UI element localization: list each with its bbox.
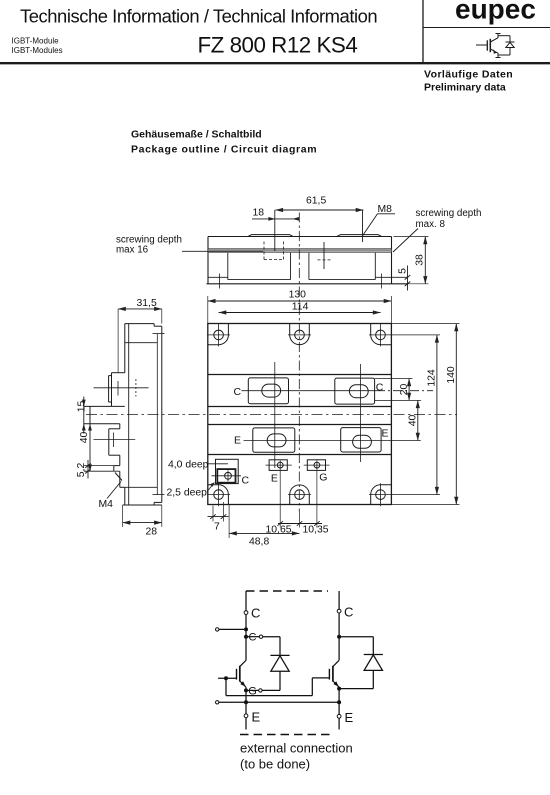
svg-text:61,5: 61,5 (306, 196, 326, 207)
svg-text:140: 140 (446, 366, 457, 384)
svg-text:IGBT-Module: IGBT-Module (12, 37, 60, 46)
svg-text:10,35: 10,35 (303, 525, 329, 536)
svg-text:7: 7 (214, 522, 220, 533)
svg-text:M4: M4 (99, 499, 114, 510)
svg-text:130: 130 (289, 290, 307, 301)
svg-text:38: 38 (414, 254, 425, 266)
svg-text:C: C (242, 475, 250, 487)
svg-text:E: E (234, 435, 241, 447)
svg-text:C: C (234, 386, 242, 398)
svg-text:Technische Information / Techn: Technische Information / Technical Infor… (20, 6, 377, 27)
svg-text:Vorläufige Daten: Vorläufige Daten (424, 69, 513, 81)
svg-text:C: C (344, 605, 353, 620)
svg-text:4,0 deep: 4,0 deep (168, 460, 209, 471)
svg-text:Package outline / Circuit diag: Package outline / Circuit diagram (131, 144, 317, 156)
svg-text:18: 18 (253, 208, 265, 219)
svg-text:IGBT-Modules: IGBT-Modules (12, 46, 63, 55)
svg-text:screwing depth: screwing depth (416, 208, 482, 219)
svg-text:max. 8: max. 8 (416, 219, 446, 230)
svg-text:40: 40 (79, 432, 90, 444)
svg-text:E: E (382, 428, 389, 440)
svg-text:28: 28 (146, 527, 158, 538)
svg-text:40: 40 (408, 415, 419, 427)
svg-text:C: C (376, 382, 384, 394)
svg-text:(to be done): (to be done) (240, 757, 310, 772)
svg-text:20: 20 (399, 384, 410, 396)
svg-text:Gehäusemaße / Schaltbild: Gehäusemaße / Schaltbild (131, 129, 262, 141)
svg-text:Preliminary data: Preliminary data (424, 82, 506, 94)
svg-text:E: E (252, 710, 261, 725)
svg-text:15: 15 (76, 401, 87, 413)
svg-text:48,8: 48,8 (249, 537, 269, 548)
svg-text:C: C (249, 632, 257, 644)
svg-text:G: G (319, 472, 327, 484)
svg-text:eupec: eupec (455, 0, 536, 25)
svg-text:max 16: max 16 (116, 245, 149, 256)
svg-text:FZ 800 R12 KS4: FZ 800 R12 KS4 (198, 33, 358, 58)
svg-text:114: 114 (292, 302, 309, 313)
svg-text:E: E (345, 710, 354, 725)
svg-text:external connection: external connection (240, 741, 353, 756)
svg-text:C: C (251, 606, 260, 621)
svg-text:5: 5 (397, 268, 408, 274)
svg-text:5,2: 5,2 (76, 463, 87, 478)
svg-text:E: E (271, 473, 278, 485)
svg-text:124: 124 (427, 369, 438, 387)
svg-text:2,5 deep: 2,5 deep (167, 488, 208, 499)
svg-text:31,5: 31,5 (137, 298, 157, 309)
svg-text:G: G (248, 686, 257, 698)
